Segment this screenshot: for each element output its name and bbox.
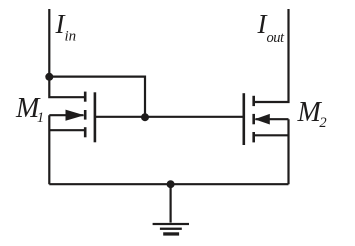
wire: M2 body lead xyxy=(255,118,288,120)
node dot: Iin junction xyxy=(45,73,53,81)
transistor M1 gate plate xyxy=(94,92,97,142)
wire: bottom rail xyxy=(49,183,288,185)
wire: Iin node across to gate column xyxy=(49,77,145,117)
label Iin xyxy=(56,9,77,46)
arrow: M1 body arrow (points right) xyxy=(66,110,85,121)
ground bar 2 xyxy=(160,228,182,230)
node dot: gate junction xyxy=(141,113,149,121)
wire: Iout vertical drop into M2 drain xyxy=(254,9,288,102)
label Iout xyxy=(258,9,284,47)
ground bar 3 xyxy=(163,232,179,235)
transistor M2 gate plate xyxy=(243,93,246,145)
wire: M1 source lead xyxy=(49,129,84,131)
wire: gate bus M1 to M2 xyxy=(96,116,244,118)
transistor M2 channel segments xyxy=(252,96,255,106)
wire: M1 body lead xyxy=(49,114,83,116)
node dot: ground junction xyxy=(167,180,175,188)
wire: M1 source/body down to rail xyxy=(48,115,50,184)
label M2 xyxy=(298,97,327,132)
wire: M2 source lead xyxy=(254,134,288,136)
transistor M1 channel segments xyxy=(84,92,87,102)
wire: Iin vertical drop into M1 drain xyxy=(49,9,84,97)
wire: M2 source/body down to rail xyxy=(287,119,289,184)
arrow: M2 body arrow (points left) xyxy=(255,114,270,125)
label M1 xyxy=(16,93,44,127)
ground stem xyxy=(170,184,172,222)
ground bar 1 xyxy=(153,223,189,225)
